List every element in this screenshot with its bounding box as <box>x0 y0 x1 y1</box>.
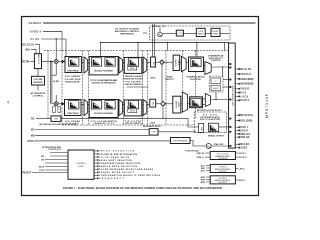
svg-text:MUX: MUX <box>151 122 156 124</box>
svg-text:SERIAL OUTPUT: SERIAL OUTPUT <box>208 134 225 137</box>
svg-text:ATTENUATOR: ATTENUATOR <box>31 92 46 95</box>
svg-text:SDOUT: SDOUT <box>240 89 250 91</box>
svg-text:FB TRI: FB TRI <box>22 61 29 63</box>
svg-text:14-BIT: 14-BIT <box>53 80 60 83</box>
svg-text:MODULATOR: MODULATOR <box>66 80 80 83</box>
svg-text:PCM OR DSD: PCM OR DSD <box>186 151 200 153</box>
svg-text:AND SERVO CONTROL: AND SERVO CONTROL <box>115 30 140 33</box>
svg-text:LINEAR PHASE/: LINEAR PHASE/ <box>124 75 143 78</box>
svg-text:ANALOG IF: ANALOG IF <box>37 54 40 65</box>
svg-text:DE-EMPHASIS: DE-EMPHASIS <box>173 140 187 143</box>
svg-text:DSD L: DSD L <box>240 127 249 129</box>
svg-text:(ATTENUATION AND REF BYPASS): (ATTENUATION AND REF BYPASS) <box>39 123 77 126</box>
svg-text:XTAL OSC: XTAL OSC <box>213 143 224 146</box>
svg-text:(SELECTABLE): (SELECTABLE) <box>125 83 142 86</box>
svg-text:BUFFER: BUFFER <box>34 82 43 84</box>
svg-text:8 TO 1 Σ-Δ DECIMATOR AND: 8 TO 1 Σ-Δ DECIMATOR AND <box>90 79 117 82</box>
svg-text:SAMPLE RATE SELECTION: SAMPLE RATE SELECTION <box>99 165 138 168</box>
svg-text:BCK (DSD): BCK (DSD) <box>240 120 252 122</box>
svg-text:PZ B: PZ B <box>39 170 44 172</box>
svg-text:DSD: DSD <box>200 127 202 132</box>
svg-text:DIGITAL FILTER (44.1K): DIGITAL FILTER (44.1K) <box>92 82 116 85</box>
svg-text:DC OUTPUT VOLTAGE: DC OUTPUT VOLTAGE <box>115 27 139 30</box>
svg-text:MCLK XO: MCLK XO <box>240 69 251 71</box>
svg-text:MC B: MC B <box>39 166 45 168</box>
svg-text:INTERPOLATOR 8X/4X: INTERPOLATOR 8X/4X <box>197 109 222 112</box>
svg-text:REFERENCE: REFERENCE <box>120 34 134 36</box>
svg-text:MINIMUM PHASE: MINIMUM PHASE <box>123 78 144 81</box>
svg-text:CONTROLS: CONTROLS <box>48 149 62 151</box>
svg-text:DSD R: DSD R <box>240 130 248 132</box>
svg-text:RFILT+: RFILT+ <box>239 180 247 182</box>
svg-text:MCLK O: MCLK O <box>239 157 247 159</box>
svg-text:1.8V REF: 1.8V REF <box>33 79 43 81</box>
svg-text:AUDIO SERIAL PORT: AUDIO SERIAL PORT <box>231 86 234 107</box>
svg-text:PD/RST: PD/RST <box>22 172 32 174</box>
svg-text:DSD EN: DSD EN <box>240 137 249 139</box>
svg-text:AGNDSA: AGNDSA <box>29 22 42 25</box>
svg-text:LFILT+: LFILT+ <box>239 168 246 170</box>
svg-text:CONTROL: CONTROL <box>211 60 222 62</box>
svg-text:SOFTMUTE AND ATTENUATION: SOFTMUTE AND ATTENUATION <box>99 153 138 156</box>
svg-text:LPB: LPB <box>54 118 58 120</box>
svg-text:DATA O: DATA O <box>240 99 249 102</box>
svg-text:MCLK (PLL): MCLK (PLL) <box>240 115 253 117</box>
svg-text:(SELECTABLE): (SELECTABLE) <box>125 122 142 125</box>
svg-text:RATE: RATE <box>177 102 180 108</box>
svg-text:AVREF IN: AVREF IN <box>153 25 166 28</box>
svg-text:24-BIT: 24-BIT <box>213 88 220 90</box>
svg-text:SAMPLE: SAMPLE <box>175 101 178 109</box>
svg-text:LOGIC: LOGIC <box>78 166 85 168</box>
svg-text:SRC: SRC <box>152 102 154 107</box>
svg-text:SCL/CCLK: SCL/CCLK <box>22 44 34 46</box>
svg-text:MD: MD <box>31 135 35 137</box>
svg-text:MC: MC <box>31 129 35 131</box>
svg-text:4TH ORDER: 4TH ORDER <box>65 75 80 78</box>
svg-text:DIVIDERS: DIVIDERS <box>218 158 228 160</box>
svg-text:FILTER 8X: FILTER 8X <box>190 79 201 81</box>
svg-text:Σ-Δ ADC MOD: Σ-Δ ADC MOD <box>65 78 81 81</box>
svg-text:VB: VB <box>41 159 44 161</box>
svg-text:4: 4 <box>7 101 9 105</box>
svg-text:RATE: RATE <box>167 75 173 78</box>
svg-text:XTAL O: XTAL O <box>197 156 205 159</box>
svg-text:MCLK I: MCLK I <box>239 153 246 155</box>
svg-text:SDA: SDA <box>25 48 30 51</box>
svg-text:BCK: BCK <box>240 93 246 95</box>
svg-text:LEVEL SHIFT SELECTION: LEVEL SHIFT SELECTION <box>99 160 133 162</box>
svg-text:LINEAR/MIN PHASE SELECTION: LINEAR/MIN PHASE SELECTION <box>99 162 141 165</box>
svg-text:SHIFT: SHIFT <box>212 34 219 36</box>
svg-text:AUXILIARY INPUT: AUXILIARY INPUT <box>143 125 161 128</box>
svg-text:LEVEL: LEVEL <box>212 31 219 33</box>
svg-text:MUX: MUX <box>150 78 155 80</box>
svg-text:SDATA (BCK): SDATA (BCK) <box>240 83 253 86</box>
svg-text:AGR: AGR <box>200 181 205 184</box>
svg-text:AGL: AGL <box>201 169 206 172</box>
svg-text:MCLKO: MCLKO <box>240 144 249 146</box>
svg-text:FILTER RESPONSE SELECT AND MOD: FILTER RESPONSE SELECT AND MODES <box>99 168 154 171</box>
svg-text:CL KS: CL KS <box>31 39 40 41</box>
svg-text:RC: RC <box>31 119 35 121</box>
svg-text:DETECT: DETECT <box>165 79 174 81</box>
svg-text:SRC: SRC <box>152 62 154 67</box>
svg-text:SAMPLE: SAMPLE <box>174 59 177 67</box>
svg-text:DATA: DATA <box>27 140 33 143</box>
svg-text:SPECTRUM: SPECTRUM <box>67 70 79 72</box>
svg-text:SPECTRUM: SPECTRUM <box>67 113 79 115</box>
svg-text:DSD CONVERTER: DSD CONVERTER <box>200 119 221 121</box>
svg-text:FREQUENCY: FREQUENCY <box>99 178 125 180</box>
svg-text:INTERPOLATION: INTERPOLATION <box>187 75 205 78</box>
svg-text:MP87340F: MP87340F <box>265 93 269 118</box>
svg-text:CONTROL: CONTROL <box>76 163 87 165</box>
svg-text:FIGURE 1 - FUNCTIONAL BLOCK DI: FIGURE 1 - FUNCTIONAL BLOCK DIAGRAM OF T… <box>63 186 222 190</box>
svg-text:SERIAL MODE SELECT: SERIAL MODE SELECT <box>99 171 135 174</box>
svg-text:PB: PB <box>41 156 44 158</box>
svg-text:FILTER R: FILTER R <box>218 182 227 184</box>
svg-text:LRCLK (BCK): LRCLK (BCK) <box>240 79 253 81</box>
svg-text:DIGITAL FILTERING: DIGITAL FILTERING <box>94 69 113 72</box>
svg-text:LOW: LOW <box>198 31 203 33</box>
svg-text:CONFIGURATION MODES IF USED SE: CONFIGURATION MODES IF USED SETTINGS <box>99 174 161 177</box>
svg-text:LRCK: LRCK <box>240 96 248 98</box>
svg-text:DIGITAL FILTERING: DIGITAL FILTERING <box>94 112 113 115</box>
svg-text:LPB: LPB <box>152 132 156 134</box>
svg-text:SCKO: SCKO <box>240 148 247 150</box>
svg-text:FILTER L: FILTER L <box>219 171 228 173</box>
svg-text:AVDD A: AVDD A <box>30 30 41 33</box>
svg-text:PASS: PASS <box>198 33 204 36</box>
svg-text:CLICK-FREE MUTE: CLICK-FREE MUTE <box>99 157 130 159</box>
svg-text:DSD CLK: DSD CLK <box>240 134 250 136</box>
svg-text:RATE: RATE <box>177 60 180 66</box>
svg-text:LPF: LPF <box>177 33 184 35</box>
svg-text:(SAME AS CH A): (SAME AS CH A) <box>94 122 114 125</box>
svg-text:SDATA O: SDATA O <box>240 73 251 76</box>
svg-text:CONTROL: CONTROL <box>33 96 44 98</box>
